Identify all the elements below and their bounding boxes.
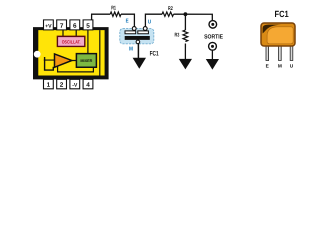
- svg-text:-V: -V: [72, 83, 78, 89]
- terminal U of FC1: [143, 27, 147, 31]
- label M (photo): [278, 64, 282, 70]
- notch (pin-1 index mark): [34, 51, 41, 58]
- feedback wire: [45, 57, 54, 70]
- svg-text:E: E: [126, 18, 129, 24]
- wire R1 to filter input: [121, 14, 134, 26]
- svg-text:M: M: [278, 64, 282, 70]
- svg-text:1: 1: [47, 82, 51, 89]
- wire filter output up to rail: [145, 14, 162, 26]
- pin 2 (bottom): [57, 79, 67, 88]
- internal bus wire: [99, 30, 101, 75]
- svg-text:4: 4: [86, 82, 90, 89]
- svg-text:R2: R2: [168, 6, 173, 12]
- svg-text:R3: R3: [175, 32, 180, 38]
- wire junction to R3: [184, 14, 186, 30]
- pin 4 (bottom): [83, 79, 93, 88]
- wire R2 to output: [174, 14, 213, 20]
- svg-text:OSCILLAT.: OSCILLAT.: [62, 39, 81, 44]
- pin 1 (bottom): [43, 79, 53, 88]
- resistor R1: [110, 5, 121, 16]
- resistor R3: [175, 30, 188, 42]
- svg-text:+V: +V: [45, 24, 52, 30]
- svg-text:5: 5: [86, 23, 90, 30]
- label FC1 (photo): [275, 9, 289, 19]
- wire amp to mixer lower input: [58, 66, 94, 72]
- wire pin5 up to top rail: [91, 14, 93, 20]
- svg-text:U: U: [290, 64, 294, 70]
- resistor R2: [162, 6, 174, 16]
- pin 7 (top): [57, 20, 67, 30]
- wire pin5 to mixer top: [87, 30, 89, 53]
- pin 5 (top): [83, 20, 93, 30]
- terminal E of FC1: [132, 27, 136, 31]
- ground arrow (output): [206, 59, 219, 70]
- mixer block: [76, 54, 96, 68]
- svg-text:SORTIE: SORTIE: [204, 34, 223, 40]
- output ground terminal: [209, 42, 217, 50]
- label E (photo): [266, 64, 270, 70]
- svg-text:2: 2: [60, 82, 64, 89]
- op-amp/IC U1 body: [33, 27, 109, 79]
- wire amp output to mixer: [72, 59, 77, 61]
- pin -V (bottom): [70, 79, 80, 88]
- label M: [129, 47, 133, 53]
- svg-text:7: 7: [60, 23, 64, 30]
- wire R3 to ground: [184, 44, 186, 60]
- output terminal SORTIE: [204, 21, 223, 41]
- svg-text:6: 6: [73, 23, 77, 30]
- terminal M of FC1: [136, 40, 140, 44]
- photo: ceramic filter package: [261, 23, 295, 61]
- wire pin7 to oscillator: [62, 30, 64, 36]
- wire pin6 to oscillator: [75, 30, 77, 36]
- amplifier A1 (triangle): [54, 54, 71, 67]
- svg-text:U: U: [148, 20, 151, 26]
- svg-text:FC1: FC1: [275, 9, 289, 19]
- wire amp input: [44, 59, 55, 61]
- pin +V (top): [44, 20, 54, 30]
- ground arrow (R3): [179, 59, 192, 70]
- label E: [126, 18, 129, 24]
- svg-text:R1: R1: [111, 5, 116, 11]
- label U: [148, 20, 151, 26]
- label FC1 (symbol): [150, 50, 159, 57]
- wire top rail to R1: [91, 13, 110, 15]
- junction node: [184, 12, 188, 16]
- ceramic filter FC1 (symbol): [120, 29, 154, 44]
- oscillator block: [57, 36, 84, 46]
- label U (photo): [290, 64, 294, 70]
- wire output terminal to ground: [211, 50, 213, 59]
- wire filter M to ground: [137, 44, 139, 59]
- svg-text:M: M: [129, 47, 133, 53]
- ground arrow (filter M): [133, 58, 146, 69]
- svg-text:FC1: FC1: [150, 50, 159, 57]
- pin 6 (top): [70, 20, 80, 30]
- svg-text:MIXER: MIXER: [80, 59, 92, 63]
